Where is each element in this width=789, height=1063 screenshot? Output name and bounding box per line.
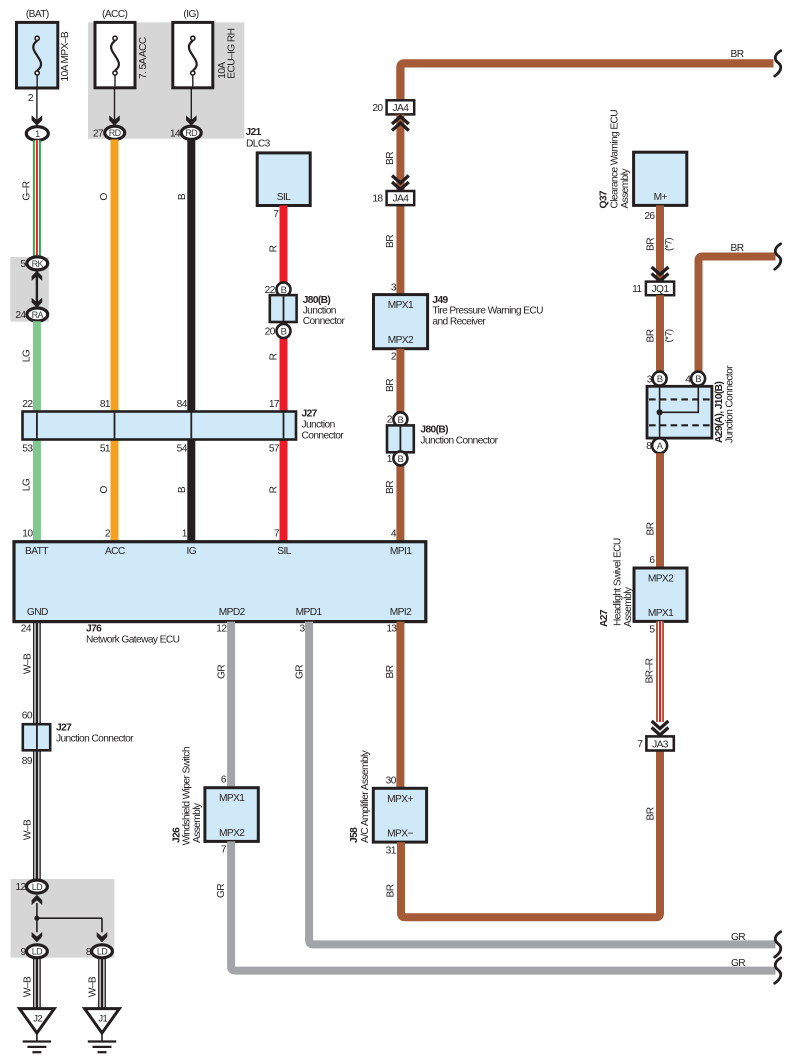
svg-text:(IG): (IG) — [183, 9, 198, 20]
junction connector J80(B) brown — [387, 424, 499, 452]
connector 20 JA4 — [372, 100, 414, 114]
arrow into connector 1 — [32, 115, 43, 125]
wire W-B GND — [23, 622, 41, 881]
svg-text:MPX1: MPX1 — [648, 608, 674, 619]
wire fuse IG — [190, 88, 192, 126]
ACC/IG fuse gray panel — [88, 22, 244, 138]
wire LG — [22, 321, 37, 542]
wire BR J49 to J76 — [385, 349, 401, 542]
svg-text:GR: GR — [216, 884, 227, 898]
svg-text:BR: BR — [731, 49, 744, 60]
svg-text:Network Gateway ECU: Network Gateway ECU — [86, 634, 180, 645]
wire GR J26 to right edge — [216, 841, 776, 970]
pin 20 B — [265, 324, 291, 338]
svg-text:MPX1: MPX1 — [388, 300, 414, 311]
pin 22 B — [265, 282, 291, 296]
svg-text:BR: BR — [645, 238, 656, 251]
connector 8 LD — [86, 945, 112, 958]
svg-text:J2: J2 — [33, 1014, 42, 1025]
svg-text:(ACC): (ACC) — [102, 9, 128, 20]
windshield wiper switch assembly J26 — [172, 747, 259, 855]
svg-text:51: 51 — [100, 444, 111, 455]
chevron down JQ1 — [652, 267, 669, 281]
svg-text:27: 27 — [93, 128, 104, 139]
svg-text:J58: J58 — [349, 827, 360, 843]
svg-text:LG: LG — [22, 349, 33, 362]
svg-text:Assembly: Assembly — [620, 168, 631, 209]
svg-text:JQ1: JQ1 — [652, 284, 670, 295]
svg-text:89: 89 — [22, 756, 33, 767]
svg-text:RD: RD — [185, 128, 198, 138]
svg-text:RD: RD — [109, 128, 122, 138]
svg-text:B: B — [695, 374, 701, 385]
svg-text:MPX−: MPX− — [387, 829, 413, 840]
LD splice wiring — [32, 895, 108, 943]
connector 11 JQ1 — [632, 282, 674, 296]
svg-text:Connector: Connector — [302, 431, 345, 442]
svg-text:J1: J1 — [98, 1014, 107, 1025]
tire pressure warning ECU J49 — [374, 283, 544, 349]
svg-text:A29(A), J10(B): A29(A), J10(B) — [714, 382, 725, 443]
svg-text:MPX2: MPX2 — [219, 828, 245, 839]
svg-text:11: 11 — [632, 284, 642, 295]
wire BR MPI2 to J58 — [385, 622, 401, 789]
svg-text:A/C Amplifier Assembly: A/C Amplifier Assembly — [360, 749, 371, 843]
svg-text:Headlight Swivel ECU: Headlight Swivel ECU — [613, 538, 624, 626]
svg-text:31: 31 — [386, 846, 397, 857]
svg-text:LD: LD — [32, 882, 43, 892]
svg-text:RK: RK — [32, 259, 44, 269]
svg-text:LG: LG — [22, 478, 33, 491]
svg-text:JA3: JA3 — [652, 739, 669, 750]
svg-text:JA4: JA4 — [393, 194, 410, 205]
svg-text:W–B: W–B — [23, 976, 34, 997]
svg-text:18: 18 — [372, 194, 383, 205]
pin 2 B — [387, 412, 408, 426]
fuse 10A ECU-IG RH — [173, 9, 238, 88]
junction connector J27 bar — [23, 409, 345, 442]
svg-text:1: 1 — [35, 129, 40, 139]
wire O orange — [99, 139, 115, 541]
svg-text:Clearance Warning ECU: Clearance Warning ECU — [610, 110, 621, 209]
svg-text:J80(B): J80(B) — [303, 295, 331, 306]
chevron up JA4 — [392, 117, 409, 131]
wire BR J58 to JA3 — [386, 749, 661, 917]
svg-text:BR: BR — [385, 481, 396, 494]
svg-text:26: 26 — [644, 211, 655, 222]
svg-text:12: 12 — [15, 882, 26, 893]
junction connector J80(B) red — [270, 295, 346, 327]
J76 name label — [86, 623, 180, 645]
chevron down JA3 — [652, 721, 669, 735]
svg-text:17: 17 — [269, 399, 280, 410]
ground J2 — [20, 1009, 55, 1053]
svg-text:53: 53 — [22, 444, 33, 455]
svg-text:BR: BR — [731, 243, 744, 254]
svg-text:B: B — [177, 486, 188, 493]
svg-text:20: 20 — [265, 326, 276, 337]
svg-text:MPX+: MPX+ — [387, 794, 413, 805]
svg-text:W–B: W–B — [23, 819, 34, 840]
svg-text:Junction Connector: Junction Connector — [420, 435, 498, 446]
connector 9 LD — [21, 945, 48, 958]
svg-text:LD: LD — [97, 947, 108, 957]
svg-text:GND: GND — [27, 607, 48, 618]
svg-text:60: 60 — [22, 711, 33, 722]
svg-text:(BAT): (BAT) — [26, 9, 49, 20]
connector 24 RA — [15, 308, 47, 321]
svg-text:BR: BR — [645, 522, 656, 535]
svg-text:BR: BR — [645, 329, 656, 342]
pin 4 label — [391, 529, 397, 540]
J27 bar pin numbers — [22, 399, 280, 454]
svg-text:R: R — [268, 245, 279, 252]
svg-text:MPX2: MPX2 — [388, 335, 414, 346]
svg-text:DLC3: DLC3 — [246, 139, 271, 150]
break symbol top BR — [775, 51, 781, 76]
clearance warning ECU assembly Q37 — [599, 110, 687, 209]
svg-text:W–B: W–B — [23, 653, 34, 674]
svg-text:14: 14 — [170, 128, 181, 139]
svg-text:B: B — [657, 374, 663, 385]
svg-text:24: 24 — [15, 310, 26, 321]
svg-text:M+: M+ — [654, 192, 668, 203]
svg-text:Junction Connector: Junction Connector — [725, 365, 736, 443]
svg-text:(*7): (*7) — [664, 238, 675, 251]
svg-text:W–B: W–B — [88, 976, 99, 997]
headlight swivel ECU assembly A27 — [599, 538, 687, 627]
svg-text:B: B — [281, 327, 287, 338]
svg-text:SIL: SIL — [277, 192, 291, 203]
svg-text:81: 81 — [100, 399, 111, 410]
svg-text:O: O — [99, 486, 110, 494]
pin 1 B — [387, 451, 408, 465]
wire BR top horizontal — [400, 49, 773, 100]
svg-text:Assembly: Assembly — [623, 586, 634, 627]
svg-text:GR: GR — [731, 932, 745, 943]
svg-text:BR: BR — [646, 807, 657, 820]
svg-text:84: 84 — [177, 399, 188, 410]
svg-text:J27: J27 — [56, 723, 72, 734]
wire BR A29 to A27 — [645, 453, 660, 568]
svg-text:30: 30 — [386, 775, 397, 786]
connector 27 RD — [93, 126, 125, 139]
wire B black — [177, 139, 191, 541]
svg-text:MPI2: MPI2 — [390, 607, 412, 618]
svg-text:54: 54 — [177, 444, 188, 455]
wire BR JA4 to J49 — [385, 114, 401, 294]
connector 14 RD — [170, 126, 201, 139]
svg-text:Assembly: Assembly — [192, 802, 203, 843]
connector 5 RK — [20, 257, 47, 270]
double arrow RK-RA — [32, 271, 43, 308]
wire BR Q37 to JQ1 — [644, 205, 674, 281]
svg-text:Tire Pressure Warning ECU: Tire Pressure Warning ECU — [432, 306, 543, 317]
wire W-B to J2 — [23, 958, 41, 1009]
wire fuse ACC — [114, 88, 116, 126]
svg-text:A27: A27 — [599, 609, 610, 627]
svg-text:J21: J21 — [246, 127, 262, 138]
svg-text:13: 13 — [386, 623, 397, 634]
A/C amplifier assembly J58 — [349, 749, 427, 856]
svg-text:B: B — [177, 193, 188, 200]
svg-text:Connector: Connector — [303, 316, 346, 327]
svg-text:BR: BR — [385, 152, 396, 165]
J76 pin numbers — [21, 529, 398, 635]
svg-text:10A MPX–B: 10A MPX–B — [60, 31, 71, 81]
svg-text:SIL: SIL — [277, 546, 291, 557]
svg-text:B: B — [398, 454, 404, 465]
network gateway ECU J76 — [14, 542, 426, 622]
svg-text:GR: GR — [295, 665, 306, 679]
svg-text:GR: GR — [731, 958, 745, 969]
svg-text:10: 10 — [22, 529, 33, 540]
svg-text:LD: LD — [32, 947, 43, 957]
svg-text:RA: RA — [32, 310, 44, 320]
svg-text:MPX2: MPX2 — [648, 574, 674, 585]
junction connector J27 small — [22, 711, 134, 768]
svg-text:R: R — [268, 353, 279, 360]
LD splice gray panel — [11, 879, 115, 958]
svg-text:BATT: BATT — [25, 546, 48, 557]
break symbol GR bottom — [775, 958, 781, 983]
fuse 7.5A ACC — [95, 9, 149, 88]
fuse 10A MPX-B (BAT) — [17, 9, 72, 88]
svg-text:Windshield Wiper Switch: Windshield Wiper Switch — [182, 747, 193, 845]
svg-text:57: 57 — [269, 444, 280, 455]
wire fuse BAT pin 2 — [28, 88, 37, 126]
svg-text:BR–R: BR–R — [645, 658, 656, 683]
svg-text:12: 12 — [216, 623, 227, 634]
svg-text:and Receiver: and Receiver — [432, 316, 486, 327]
wire R red — [268, 206, 283, 542]
ground J1 — [85, 1009, 120, 1053]
svg-text:BR: BR — [385, 665, 396, 678]
wire W-B to J1 — [88, 958, 106, 1009]
RK/RA connector gray panel — [10, 257, 49, 322]
chevron down JA4 — [392, 176, 409, 190]
svg-text:J27: J27 — [302, 409, 318, 420]
arrow into connector 14 — [186, 115, 197, 125]
svg-text:20: 20 — [372, 103, 383, 114]
connector 12 LD — [15, 880, 47, 893]
svg-text:BR: BR — [386, 884, 397, 897]
connector oval 1 — [26, 127, 48, 141]
svg-text:MPD2: MPD2 — [219, 607, 246, 618]
svg-text:Junction: Junction — [302, 420, 335, 431]
svg-text:7. 5A ACC: 7. 5A ACC — [138, 37, 149, 79]
svg-text:MPX1: MPX1 — [219, 793, 245, 804]
svg-text:(*7): (*7) — [664, 329, 675, 342]
wire BR-R — [645, 621, 661, 722]
svg-text:G–R: G–R — [22, 181, 33, 200]
svg-text:J80(B): J80(B) — [420, 424, 448, 435]
junction connector A29(A) J10(B) — [646, 365, 735, 453]
DLC3 connector J21 — [246, 127, 311, 206]
svg-text:24: 24 — [21, 623, 32, 634]
svg-text:Q37: Q37 — [599, 190, 610, 208]
wire G-R — [22, 140, 37, 257]
svg-text:Junction Connector: Junction Connector — [56, 734, 134, 745]
arrow into connector 27 — [109, 115, 120, 125]
wire BR JQ1 to junction — [645, 295, 674, 372]
svg-text:R: R — [268, 486, 279, 493]
svg-text:O: O — [99, 193, 110, 201]
svg-text:JA4: JA4 — [393, 103, 410, 114]
svg-text:BR: BR — [385, 379, 396, 392]
svg-text:MPI1: MPI1 — [390, 546, 412, 557]
svg-text:GR: GR — [217, 665, 228, 679]
wire GR MPD2 — [217, 622, 232, 788]
svg-text:ACC: ACC — [105, 546, 125, 557]
wire BR right horizontal — [699, 243, 776, 372]
wire GR MPD1 to right edge — [295, 622, 776, 945]
connector 18 JA4 — [372, 191, 414, 205]
svg-text:IG: IG — [187, 546, 197, 557]
svg-text:J76: J76 — [86, 623, 102, 634]
svg-text:J49: J49 — [432, 295, 448, 306]
break symbol GR upper — [775, 932, 781, 957]
svg-text:MPD1: MPD1 — [296, 607, 323, 618]
connector 7 JA3 — [637, 736, 673, 750]
svg-text:22: 22 — [22, 399, 33, 410]
svg-text:Junction: Junction — [303, 305, 336, 316]
svg-text:BR: BR — [385, 235, 396, 248]
break symbol right BR — [775, 244, 781, 269]
svg-text:ECU–IG RH: ECU–IG RH — [227, 28, 238, 78]
